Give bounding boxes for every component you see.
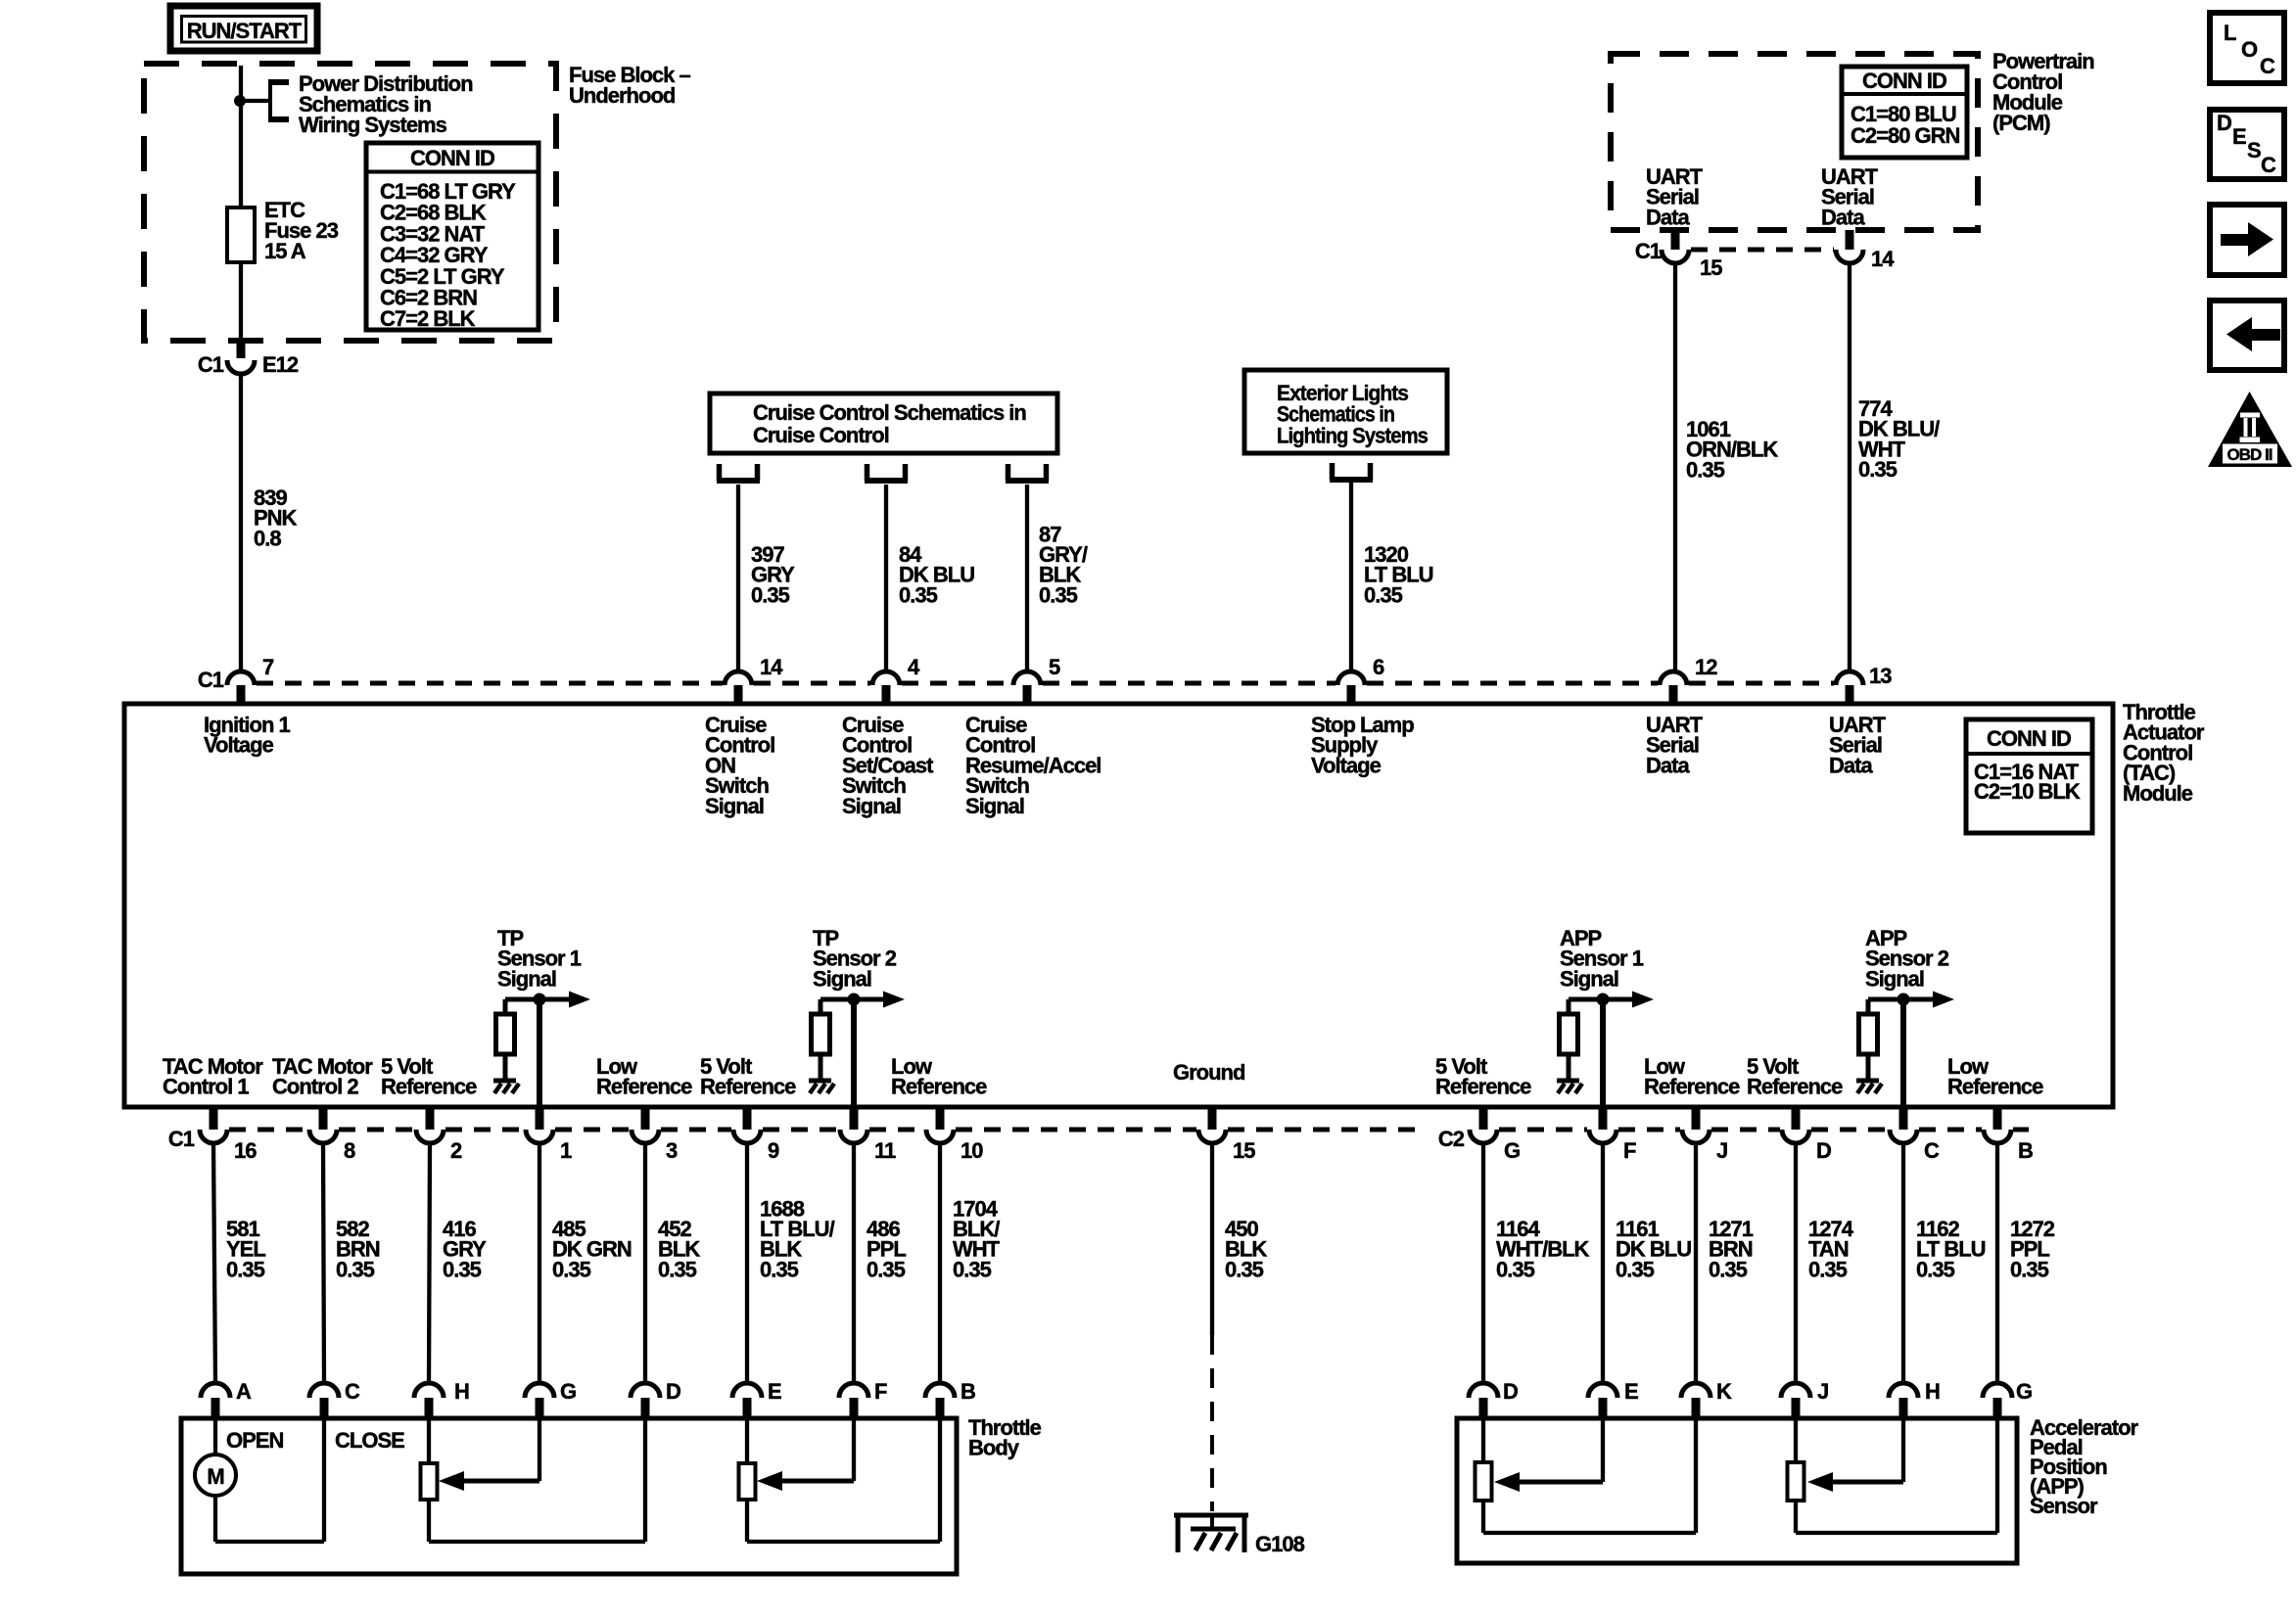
connector throttle body pin F <box>839 1379 887 1418</box>
label 1274 wire <box>1808 1217 1854 1281</box>
icon DESC <box>2210 110 2284 179</box>
wire 1274 TAN 0.35 <box>1794 1143 1798 1383</box>
svg-text:10: 10 <box>961 1138 983 1163</box>
svg-text:0.35: 0.35 <box>1364 582 1403 607</box>
svg-text:OPEN: OPEN <box>226 1428 283 1453</box>
svg-text:C2: C2 <box>1438 1127 1465 1151</box>
CONN ID table fuse block <box>366 143 539 331</box>
label APP Sensor 2 Signal <box>1865 926 1949 991</box>
connector throttle body pin B <box>925 1379 975 1418</box>
wire 486 PPL 0.35 <box>852 1143 856 1383</box>
label TP Sensor 1 Signal <box>497 926 582 991</box>
connector TAC C1 pin 5 <box>1013 655 1060 702</box>
svg-text:C1: C1 <box>198 352 224 377</box>
connector TAC bottom pin G <box>1438 1107 1520 1163</box>
APP Sensor 1 pull-up network <box>1557 992 1654 1108</box>
svg-text:OBD II: OBD II <box>2227 445 2273 464</box>
svg-text:14: 14 <box>760 655 783 679</box>
label TAC Motor Control 1 <box>163 1054 263 1099</box>
svg-text:Wiring Systems: Wiring Systems <box>299 113 447 137</box>
wiper arrow APP sensor 2 <box>1807 1418 1903 1492</box>
Fuse Block - Underhood dashed box <box>144 64 556 341</box>
potentiometer TP sensor 2 <box>739 1418 756 1500</box>
connector TAC bottom pin 8 <box>309 1107 355 1163</box>
CONN ID table TAC <box>1966 719 2092 833</box>
connector TAC C1 pin 12 <box>1660 655 1717 702</box>
svg-text:Data: Data <box>1646 753 1690 777</box>
svg-text:4: 4 <box>908 655 920 679</box>
icon arrow right <box>2210 205 2284 275</box>
label ETC Fuse 23 15 A <box>264 198 339 263</box>
svg-text:0.35: 0.35 <box>2010 1257 2049 1281</box>
connector throttle body pin H <box>414 1379 469 1418</box>
svg-text:Reference: Reference <box>381 1075 477 1099</box>
svg-text:S: S <box>2247 138 2261 162</box>
label 486 wire <box>867 1217 906 1281</box>
connector TAC bottom pin 2 <box>416 1107 462 1163</box>
label TP Sensor 2 Signal <box>813 926 897 991</box>
off-page bracket power distribution <box>268 82 289 119</box>
label 1271 wire <box>1709 1217 1754 1281</box>
potentiometer APP sensor 2 <box>1788 1418 1804 1501</box>
wire APP2 low side <box>1796 1418 1997 1533</box>
svg-text:J: J <box>1716 1138 1727 1163</box>
svg-text:0.35: 0.35 <box>658 1257 697 1281</box>
svg-text:J: J <box>1817 1379 1828 1404</box>
label 581 wire <box>226 1217 265 1281</box>
svg-text:G: G <box>2016 1379 2032 1404</box>
svg-text:Body: Body <box>968 1436 1020 1460</box>
wire 397 GRY 0.35 <box>736 485 740 671</box>
svg-text:C2=80 GRN: C2=80 GRN <box>1851 123 1960 148</box>
wire RUN/START feed <box>239 66 243 208</box>
connector TAC bottom pin 11 <box>840 1107 896 1163</box>
svg-text:0.35: 0.35 <box>751 582 790 607</box>
svg-text:3: 3 <box>666 1138 678 1163</box>
svg-text:Data: Data <box>1829 753 1873 777</box>
dashed connector line TAC C1 top <box>257 681 1834 686</box>
wire 1320 LT BLU 0.35 <box>1349 483 1353 671</box>
svg-text:Reference: Reference <box>891 1075 987 1099</box>
svg-text:0.35: 0.35 <box>899 582 938 607</box>
svg-text:0.35: 0.35 <box>1686 457 1725 482</box>
wire motor to close <box>215 1418 324 1542</box>
label 1164 wire <box>1496 1217 1590 1281</box>
connector TAC bottom pin 1 <box>526 1107 572 1163</box>
svg-text:Reference: Reference <box>1947 1075 2043 1099</box>
svg-text:0.35: 0.35 <box>1808 1257 1848 1281</box>
label 1320 LT BLU 0.35 <box>1364 542 1433 607</box>
label Low Reference pin B <box>1947 1054 2043 1099</box>
svg-text:CONN ID: CONN ID <box>410 146 494 170</box>
svg-text:0.35: 0.35 <box>552 1257 591 1281</box>
connector TAC C1 pin 13 <box>1836 664 1892 702</box>
Exterior Lights Schematics reference box <box>1244 370 1447 453</box>
potentiometer TP sensor 1 <box>421 1418 438 1500</box>
svg-text:A: A <box>236 1379 252 1404</box>
connector TAC C1 pin 6 <box>1337 655 1384 702</box>
svg-text:E: E <box>1624 1379 1638 1404</box>
svg-text:Voltage: Voltage <box>204 733 274 758</box>
svg-text:C1: C1 <box>168 1127 195 1151</box>
label Throttle Actuator Control (TAC) Module <box>2123 700 2205 806</box>
bracket cruise wire 87 <box>1006 464 1049 481</box>
svg-text:M: M <box>207 1464 223 1489</box>
svg-text:0.35: 0.35 <box>1858 457 1898 482</box>
svg-text:Control 1: Control 1 <box>163 1075 249 1099</box>
wiper arrow APP sensor 1 <box>1494 1418 1603 1492</box>
Cruise Control Schematics reference box <box>710 393 1057 453</box>
connector TAC bottom pin D <box>1782 1107 1831 1163</box>
connector throttle body pin C <box>309 1379 360 1418</box>
wire 581 YEL 0.35 <box>213 1143 215 1383</box>
label 452 wire <box>658 1217 700 1281</box>
svg-text:Cruise Control Schematics in: Cruise Control Schematics in <box>753 400 1026 425</box>
svg-text:D: D <box>1503 1379 1518 1404</box>
Throttle Actuator Control TAC Module box <box>124 704 2113 1107</box>
svg-text:15: 15 <box>1233 1138 1255 1163</box>
svg-text:9: 9 <box>768 1138 779 1163</box>
RUN/START ignition switch box <box>170 6 317 51</box>
wire 1162 LT BLU 0.35 <box>1901 1143 1905 1383</box>
wire fuse to connector E12 <box>239 262 243 358</box>
wire 1271 BRN 0.35 <box>1694 1143 1698 1383</box>
APP Sensor 2 pull-up network <box>1856 992 1954 1108</box>
wire 839 PNK 0.8 <box>239 373 243 671</box>
CONN ID table PCM <box>1842 67 1967 158</box>
connector APP sensor pin E <box>1588 1379 1638 1418</box>
label 5 Volt Reference pin 2 <box>381 1054 477 1099</box>
svg-text:Underhood: Underhood <box>569 83 675 108</box>
wire TP2 low side <box>747 1418 940 1542</box>
svg-text:H: H <box>1925 1379 1940 1404</box>
svg-text:CONN ID: CONN ID <box>1862 69 1946 93</box>
label TAC Motor Control 2 <box>272 1054 373 1099</box>
connector TAC bottom pin 3 <box>632 1107 678 1163</box>
svg-text:G: G <box>560 1379 576 1404</box>
label 1688 wire <box>760 1196 835 1281</box>
svg-text:0.35: 0.35 <box>1916 1257 1955 1281</box>
wire 416 GRY 0.35 <box>429 1143 430 1383</box>
dashed connector line PCM C1 <box>1691 248 1834 253</box>
label 5 Volt Reference pin G <box>1435 1054 1531 1099</box>
svg-text:0.35: 0.35 <box>1709 1257 1748 1281</box>
bracket cruise wire 84 <box>865 464 908 481</box>
svg-text:Signal: Signal <box>1560 966 1618 991</box>
svg-text:Reference: Reference <box>1747 1075 1843 1099</box>
wire TP1 low side <box>429 1418 645 1542</box>
label UART Serial Data PCM pin 14 <box>1821 164 1879 229</box>
svg-text:O: O <box>2241 37 2258 62</box>
svg-text:F: F <box>1623 1138 1636 1163</box>
motor M throttle <box>195 1418 236 1496</box>
TP Sensor 2 pull-up network <box>809 992 905 1108</box>
wire 452 BLK 0.35 <box>643 1143 647 1383</box>
label 416 wire <box>443 1217 487 1281</box>
connector throttle body pin A <box>201 1379 252 1418</box>
label UART Serial Data TAC pin 13 <box>1829 713 1887 777</box>
connector TAC C1 pin 7 <box>198 655 274 702</box>
connector throttle body pin G <box>525 1379 576 1418</box>
svg-text:0.8: 0.8 <box>254 526 281 550</box>
label Accelerator Pedal Position (APP) Sensor <box>2030 1415 2139 1518</box>
connector PCM C1 pin 15 <box>1635 230 1722 280</box>
svg-text:D: D <box>2217 111 2231 135</box>
label 397 GRY 0.35 <box>751 542 795 607</box>
wire 774 DK BLU/WHT 0.35 <box>1848 262 1851 671</box>
connector TAC bottom pin 9 <box>733 1107 779 1163</box>
svg-text:H: H <box>454 1379 469 1404</box>
svg-text:Data: Data <box>1821 205 1865 229</box>
ground G108 <box>1174 1515 1305 1556</box>
Accelerator Pedal Position APP Sensor box <box>1457 1418 2017 1563</box>
connector TAC bottom pin F <box>1589 1107 1636 1163</box>
label 839 PNK 0.8 <box>254 485 298 550</box>
wiper arrow TP sensor 1 <box>439 1418 539 1491</box>
svg-text:Signal: Signal <box>705 794 764 818</box>
svg-text:0.35: 0.35 <box>953 1257 992 1281</box>
svg-text:C: C <box>2260 54 2275 78</box>
svg-text:C: C <box>2261 153 2276 177</box>
label 774 DK BLU/WHT 0.35 <box>1858 396 1940 482</box>
Throttle Body box <box>181 1418 957 1574</box>
connector TAC C1 pin 4 <box>872 655 920 702</box>
svg-text:Module: Module <box>2123 781 2193 806</box>
potentiometer APP sensor 1 <box>1476 1418 1492 1501</box>
svg-text:13: 13 <box>1869 664 1892 688</box>
svg-text:E12: E12 <box>262 352 299 377</box>
svg-text:Signal: Signal <box>842 794 901 818</box>
label Stop Lamp Supply Voltage <box>1311 713 1414 777</box>
connector APP sensor pin D <box>1469 1379 1518 1418</box>
label UART Serial Data TAC pin 12 <box>1646 713 1704 777</box>
Powertrain Control Module dashed box <box>1611 54 1978 230</box>
wire 1272 PPL 0.35 <box>1995 1143 1999 1383</box>
svg-text:Ground: Ground <box>1173 1060 1244 1085</box>
svg-text:0.35: 0.35 <box>226 1257 265 1281</box>
connector TAC bottom pin C <box>1890 1107 1940 1163</box>
svg-text:CONN ID: CONN ID <box>1987 726 2071 751</box>
svg-text:14: 14 <box>1871 247 1895 271</box>
label Power Distribution Schematics in Wiring Systems <box>299 71 473 137</box>
wire 1161 DK BLU 0.35 <box>1601 1143 1605 1383</box>
connector throttle body pin D <box>631 1379 680 1418</box>
svg-text:G108: G108 <box>1255 1532 1305 1556</box>
svg-text:C: C <box>345 1379 360 1404</box>
wire 87 GRY/BLK 0.35 <box>1025 485 1029 671</box>
label 450 BLK 0.35 <box>1225 1217 1267 1281</box>
TP Sensor 1 pull-up network <box>493 992 590 1108</box>
connector TAC bottom pin 15 <box>1198 1107 1255 1163</box>
wire 1688 LT BLU/ BLK 0.35 <box>745 1143 749 1383</box>
svg-text:RUN/START: RUN/START <box>187 19 303 43</box>
svg-text:8: 8 <box>344 1138 355 1163</box>
svg-text:Reference: Reference <box>1644 1075 1740 1099</box>
svg-text:Reference: Reference <box>1435 1075 1531 1099</box>
label 84 DK BLU 0.35 <box>899 542 974 607</box>
label 5 Volt Reference pin D <box>1747 1054 1843 1099</box>
svg-text:Cruise Control: Cruise Control <box>753 423 889 447</box>
icon OBD II triangle <box>2208 392 2292 467</box>
svg-text:6: 6 <box>1373 655 1384 679</box>
connector APP sensor pin K <box>1681 1379 1732 1418</box>
label UART Serial Data PCM pin 15 <box>1646 164 1704 229</box>
label 1161 wire <box>1616 1217 1691 1281</box>
icon LOC <box>2210 13 2284 83</box>
wire 485 DK GRN 0.35 <box>538 1143 541 1383</box>
svg-text:D: D <box>666 1379 680 1404</box>
wire 1164 WHT/BLK 0.35 <box>1481 1143 1485 1383</box>
svg-text:B: B <box>961 1379 975 1404</box>
bracket cruise wire 397 <box>717 464 760 481</box>
label Low Reference pin J <box>1644 1054 1740 1099</box>
label 5 Volt Reference pin 9 <box>700 1054 796 1099</box>
connector APP sensor pin J <box>1781 1379 1828 1418</box>
label 1272 wire <box>2010 1217 2055 1281</box>
wire 582 BRN 0.35 <box>323 1143 324 1383</box>
label APP Sensor 1 Signal <box>1560 926 1644 991</box>
svg-text:C1: C1 <box>1635 239 1662 263</box>
svg-text:15 A: 15 A <box>264 239 306 263</box>
svg-text:Lighting Systems: Lighting Systems <box>1277 423 1429 447</box>
svg-text:C2=10 BLK: C2=10 BLK <box>1974 779 2081 804</box>
wire APP1 low side <box>1483 1418 1696 1533</box>
label Low Reference pin 10 <box>891 1054 987 1099</box>
icon arrow left <box>2210 300 2284 370</box>
svg-text:D: D <box>1816 1138 1831 1163</box>
label 582 wire <box>336 1217 380 1281</box>
bracket stop lamp wire <box>1330 463 1373 480</box>
svg-text:5: 5 <box>1049 655 1060 679</box>
connector TAC bottom pin B <box>1984 1107 2033 1163</box>
label Powertrain Control Module (PCM) <box>1992 49 2094 135</box>
label 1061 ORN/BLK 0.35 <box>1686 417 1778 482</box>
junction node power distribution tap <box>234 95 270 107</box>
svg-text:Signal: Signal <box>1865 966 1924 991</box>
label 1162 wire <box>1916 1217 1986 1281</box>
svg-text:Reference: Reference <box>596 1075 692 1099</box>
svg-text:0.35: 0.35 <box>443 1257 482 1281</box>
svg-text:Voltage: Voltage <box>1311 753 1382 777</box>
svg-text:2: 2 <box>450 1138 462 1163</box>
svg-text:K: K <box>1716 1379 1732 1404</box>
connector APP sensor pin G <box>1983 1379 2032 1418</box>
svg-text:0.35: 0.35 <box>1039 582 1078 607</box>
svg-text:Signal: Signal <box>497 966 556 991</box>
label Cruise Control ON Switch Signal <box>705 713 774 818</box>
connector C1 E12 <box>198 339 299 377</box>
label CLOSE <box>335 1428 404 1453</box>
svg-text:C: C <box>1924 1138 1940 1163</box>
svg-text:G: G <box>1504 1138 1520 1163</box>
svg-text:Data: Data <box>1646 205 1690 229</box>
svg-text:16: 16 <box>234 1138 257 1163</box>
svg-text:E: E <box>2232 124 2246 149</box>
svg-text:0.35: 0.35 <box>760 1257 799 1281</box>
dashed connector line TAC bottom <box>229 1128 2029 1132</box>
label Cruise Control Resume/Accel Switch Signal <box>965 713 1101 818</box>
svg-text:B: B <box>2018 1138 2033 1163</box>
connector TAC C1 pin 14 <box>725 655 783 702</box>
svg-text:C1: C1 <box>198 668 224 692</box>
svg-text:0.35: 0.35 <box>1616 1257 1655 1281</box>
svg-text:(PCM): (PCM) <box>1992 111 2050 135</box>
connector throttle body pin E <box>732 1379 781 1418</box>
svg-text:CLOSE: CLOSE <box>335 1428 404 1453</box>
svg-text:Signal: Signal <box>965 794 1024 818</box>
connector TAC bottom pin J <box>1682 1107 1727 1163</box>
svg-text:Sensor: Sensor <box>2030 1494 2098 1518</box>
connector APP sensor pin H <box>1889 1379 1940 1418</box>
label Ground pin 15 <box>1173 1060 1244 1085</box>
label 485 wire <box>552 1217 632 1281</box>
svg-text:0.35: 0.35 <box>336 1257 375 1281</box>
svg-text:Reference: Reference <box>700 1075 796 1099</box>
wire 84 DK BLU 0.35 <box>884 485 888 671</box>
wire 450 BLK 0.35 <box>1210 1143 1214 1511</box>
connector TAC bottom pin 16 <box>168 1107 257 1163</box>
connector PCM pin 14 <box>1836 230 1895 271</box>
svg-text:11: 11 <box>874 1138 896 1163</box>
label 1704 wire <box>953 1196 1001 1281</box>
svg-text:1: 1 <box>560 1138 572 1163</box>
svg-text:12: 12 <box>1695 655 1717 679</box>
wire 1704 BLK/ WHT 0.35 <box>938 1143 942 1383</box>
svg-text:C7=2 BLK: C7=2 BLK <box>380 306 476 331</box>
label Cruise Control Set/Coast Switch Signal <box>842 713 934 818</box>
svg-text:15: 15 <box>1700 255 1722 280</box>
label Low Reference pin 3 <box>596 1054 692 1099</box>
svg-text:Control 2: Control 2 <box>272 1075 358 1099</box>
wiper arrow TP sensor 2 <box>757 1418 854 1491</box>
svg-text:E: E <box>768 1379 781 1404</box>
label Ignition 1 Voltage <box>204 713 291 758</box>
label 87 GRY/BLK 0.35 <box>1039 522 1088 607</box>
fuse ETC Fuse 23 15 A <box>227 208 255 262</box>
svg-text:Signal: Signal <box>813 966 871 991</box>
svg-text:7: 7 <box>262 655 274 679</box>
label Fuse Block - Underhood <box>569 63 690 108</box>
label OPEN <box>226 1428 283 1453</box>
wire 1061 ORN/BLK 0.35 <box>1673 262 1677 671</box>
svg-text:0.35: 0.35 <box>867 1257 906 1281</box>
connector TAC bottom pin 10 <box>926 1107 983 1163</box>
svg-text:0.35: 0.35 <box>1225 1257 1264 1281</box>
svg-text:F: F <box>874 1379 887 1404</box>
svg-text:0.35: 0.35 <box>1496 1257 1535 1281</box>
label Throttle Body <box>968 1415 1042 1460</box>
svg-text:L: L <box>2224 21 2236 45</box>
